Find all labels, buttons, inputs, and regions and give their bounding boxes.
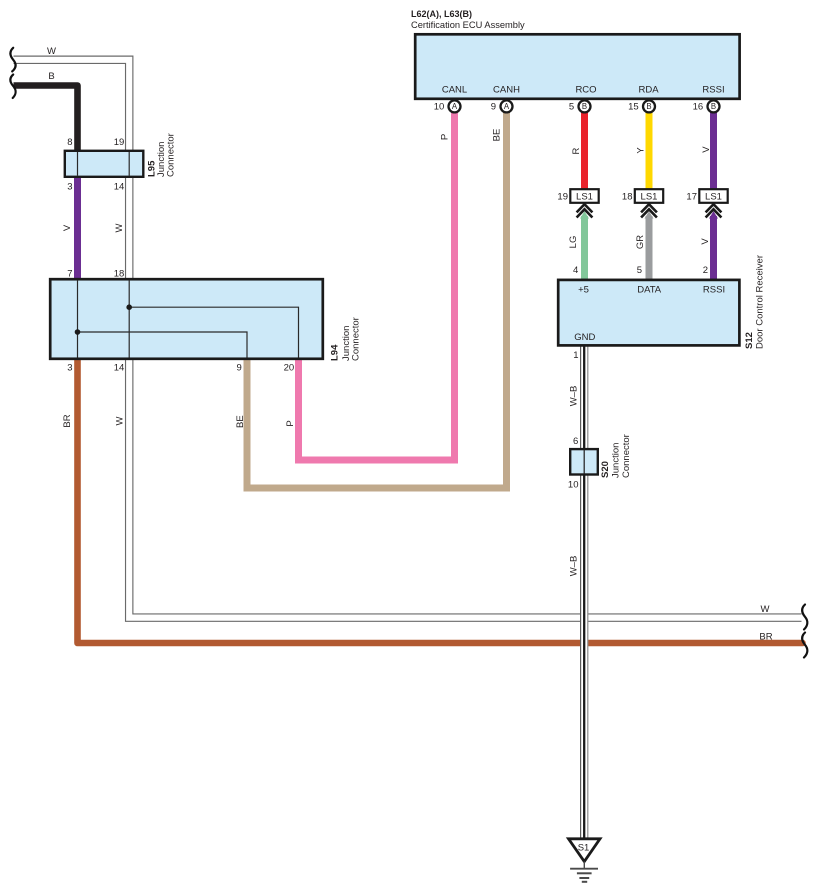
svg-text:P: P xyxy=(440,134,451,140)
svg-text:7: 7 xyxy=(67,269,72,280)
svg-text:18: 18 xyxy=(622,191,633,202)
svg-text:BE: BE xyxy=(235,415,246,428)
svg-text:RSSI: RSSI xyxy=(702,85,724,96)
svg-text:LG: LG xyxy=(568,236,579,249)
svg-text:LS1: LS1 xyxy=(576,192,593,203)
svg-text:4: 4 xyxy=(573,265,578,276)
svg-text:BR: BR xyxy=(759,631,772,642)
svg-text:CANL: CANL xyxy=(442,85,467,96)
svg-text:V: V xyxy=(701,146,712,153)
svg-text:9: 9 xyxy=(491,101,496,112)
svg-text:6: 6 xyxy=(573,436,578,447)
svg-text:8: 8 xyxy=(67,137,72,148)
svg-text:Connector: Connector xyxy=(351,317,362,361)
svg-text:Y: Y xyxy=(636,147,647,154)
svg-text:Junction: Junction xyxy=(611,443,622,478)
svg-text:RCO: RCO xyxy=(575,85,596,96)
svg-text:20: 20 xyxy=(284,362,295,373)
svg-text:W: W xyxy=(114,223,125,232)
svg-text:19: 19 xyxy=(557,191,568,202)
svg-text:LS1: LS1 xyxy=(705,192,722,203)
svg-text:W–B: W–B xyxy=(568,556,579,577)
svg-text:R: R xyxy=(571,147,582,154)
svg-text:Door Control Receiver: Door Control Receiver xyxy=(755,255,766,349)
svg-text:19: 19 xyxy=(114,137,125,148)
svg-text:Connector: Connector xyxy=(621,434,632,478)
svg-text:W–B: W–B xyxy=(568,386,579,407)
svg-text:2: 2 xyxy=(703,265,708,276)
svg-text:BE: BE xyxy=(492,129,503,142)
svg-text:W: W xyxy=(761,604,770,615)
svg-text:L62(A), L63(B): L62(A), L63(B) xyxy=(411,9,472,19)
svg-text:+5: +5 xyxy=(578,284,589,295)
svg-text:S1: S1 xyxy=(578,843,590,854)
svg-text:V: V xyxy=(62,224,73,231)
svg-text:16: 16 xyxy=(693,101,704,112)
svg-text:B: B xyxy=(582,102,587,111)
svg-text:W: W xyxy=(47,46,56,57)
svg-text:3: 3 xyxy=(67,362,72,373)
svg-text:14: 14 xyxy=(114,181,125,192)
svg-text:A: A xyxy=(504,102,510,111)
svg-text:LS1: LS1 xyxy=(641,192,658,203)
svg-text:1: 1 xyxy=(573,350,578,361)
svg-text:14: 14 xyxy=(114,362,125,373)
svg-text:GR: GR xyxy=(635,235,646,249)
svg-text:15: 15 xyxy=(628,101,639,112)
svg-text:B: B xyxy=(48,71,54,82)
svg-text:S20: S20 xyxy=(600,461,611,478)
svg-text:B: B xyxy=(646,102,651,111)
svg-text:A: A xyxy=(452,102,458,111)
svg-text:GND: GND xyxy=(574,332,595,343)
svg-text:DATA: DATA xyxy=(637,284,662,295)
svg-text:3: 3 xyxy=(67,181,72,192)
svg-text:P: P xyxy=(285,420,296,426)
svg-text:W: W xyxy=(115,416,126,425)
svg-text:V: V xyxy=(700,238,711,245)
svg-text:5: 5 xyxy=(637,265,642,276)
svg-text:RDA: RDA xyxy=(638,85,659,96)
svg-text:L94: L94 xyxy=(330,344,341,361)
svg-text:BR: BR xyxy=(62,414,73,427)
svg-text:S12: S12 xyxy=(744,332,755,349)
svg-text:Connector: Connector xyxy=(166,133,177,177)
svg-text:B: B xyxy=(711,102,716,111)
svg-text:Certification ECU Assembly: Certification ECU Assembly xyxy=(411,20,525,30)
svg-text:18: 18 xyxy=(114,269,125,280)
svg-text:9: 9 xyxy=(237,362,242,373)
svg-text:17: 17 xyxy=(686,191,697,202)
svg-text:10: 10 xyxy=(434,101,445,112)
svg-text:5: 5 xyxy=(569,101,574,112)
svg-text:CANH: CANH xyxy=(493,85,520,96)
svg-text:RSSI: RSSI xyxy=(703,284,725,295)
svg-text:10: 10 xyxy=(568,479,579,490)
